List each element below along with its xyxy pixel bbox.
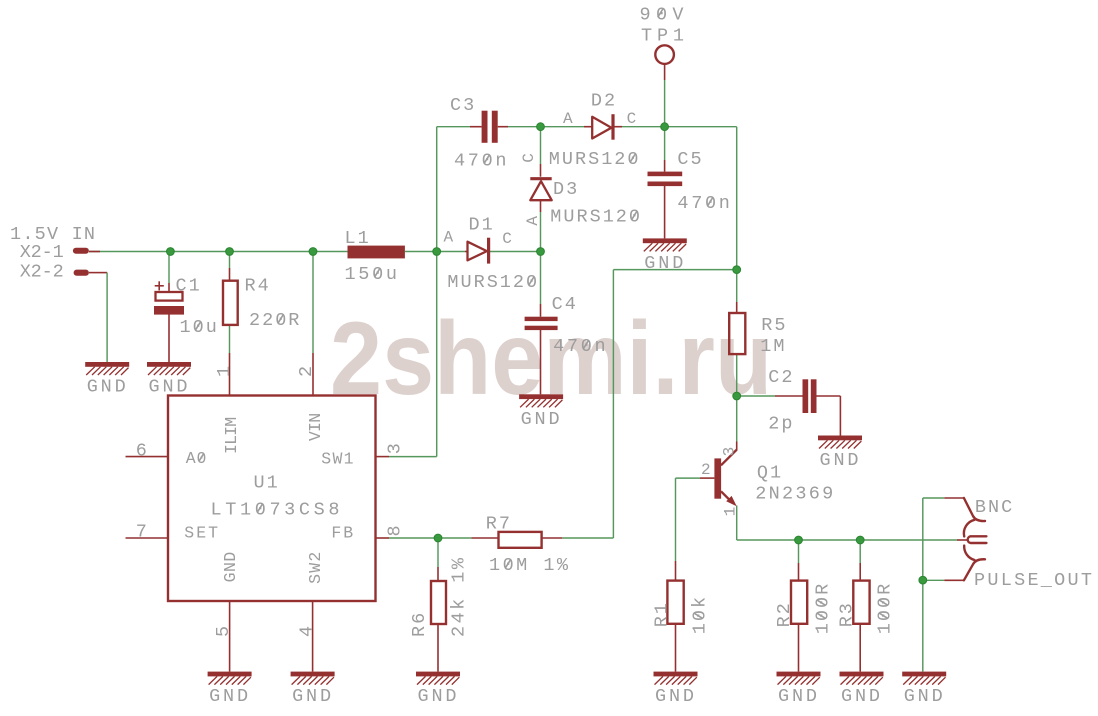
svg-text:D3: D3 — [553, 179, 579, 200]
svg-text:7: 7 — [136, 522, 147, 543]
svg-text:SET: SET — [184, 524, 219, 543]
svg-text:A: A — [563, 110, 573, 128]
svg-text:C: C — [520, 153, 538, 163]
svg-text:90V: 90V — [640, 5, 686, 26]
svg-text:LT1073CS8: LT1073CS8 — [211, 500, 342, 521]
svg-text:A: A — [524, 216, 542, 226]
svg-text:X2-1: X2-1 — [20, 242, 66, 263]
svg-text:R4: R4 — [245, 276, 271, 297]
svg-text:5: 5 — [213, 626, 234, 637]
svg-text:470n: 470n — [677, 193, 732, 214]
svg-text:2N2369: 2N2369 — [755, 484, 835, 505]
svg-text:MURS120: MURS120 — [550, 207, 642, 228]
svg-text:C: C — [502, 230, 512, 248]
svg-text:A0: A0 — [186, 449, 207, 468]
svg-text:ILIM: ILIM — [222, 416, 241, 454]
svg-text:2: 2 — [701, 461, 711, 479]
svg-text:3: 3 — [721, 447, 739, 457]
svg-text:C1: C1 — [176, 276, 202, 297]
svg-text:2p: 2p — [768, 414, 794, 435]
svg-text:D1: D1 — [469, 215, 495, 236]
svg-text:MURS120: MURS120 — [549, 149, 641, 170]
svg-text:D2: D2 — [591, 91, 617, 112]
svg-text:24k 1%: 24k 1% — [449, 556, 470, 637]
svg-text:PULSE_OUT: PULSE_OUT — [974, 570, 1094, 591]
svg-text:R5: R5 — [761, 315, 787, 336]
svg-text:C5: C5 — [677, 149, 703, 170]
svg-text:R6: R6 — [409, 611, 430, 637]
svg-text:150u: 150u — [345, 264, 400, 285]
svg-text:10k: 10k — [689, 595, 710, 634]
svg-text:100R: 100R — [812, 582, 833, 634]
svg-text:C2: C2 — [768, 367, 794, 388]
svg-text:R1: R1 — [651, 601, 672, 627]
svg-text:2: 2 — [296, 366, 317, 377]
svg-text:A: A — [444, 229, 454, 247]
svg-text:BNC: BNC — [975, 497, 1014, 518]
svg-text:10M 1%: 10M 1% — [489, 555, 570, 576]
svg-text:Q1: Q1 — [757, 463, 783, 484]
svg-text:8: 8 — [385, 525, 406, 536]
svg-text:100R: 100R — [875, 582, 896, 634]
svg-text:R7: R7 — [486, 514, 512, 535]
svg-text:1: 1 — [722, 507, 740, 517]
svg-text:MURS120: MURS120 — [447, 272, 539, 293]
svg-text:10u: 10u — [180, 317, 219, 338]
svg-text:C4: C4 — [552, 294, 578, 315]
svg-text:L1: L1 — [345, 228, 371, 249]
svg-text:C: C — [627, 110, 637, 128]
svg-text:6: 6 — [136, 440, 147, 461]
svg-text:1M: 1M — [760, 336, 786, 357]
svg-text:R3: R3 — [837, 601, 858, 627]
svg-text:GND: GND — [221, 551, 240, 583]
svg-text:FB: FB — [331, 524, 354, 543]
svg-text:SW1: SW1 — [321, 450, 354, 469]
svg-text:R2: R2 — [774, 601, 795, 627]
svg-text:220R: 220R — [249, 310, 301, 331]
svg-text:1: 1 — [214, 366, 235, 377]
svg-text:470n: 470n — [454, 151, 509, 172]
svg-text:SW2: SW2 — [306, 551, 325, 584]
svg-text:U1: U1 — [254, 472, 280, 493]
svg-text:X2-2: X2-2 — [20, 262, 66, 283]
svg-text:TP1: TP1 — [641, 26, 686, 47]
svg-text:470n: 470n — [553, 336, 608, 357]
svg-text:VIN: VIN — [306, 412, 325, 441]
svg-text:C3: C3 — [450, 95, 476, 116]
svg-text:4: 4 — [297, 626, 318, 637]
svg-text:3: 3 — [385, 443, 406, 454]
